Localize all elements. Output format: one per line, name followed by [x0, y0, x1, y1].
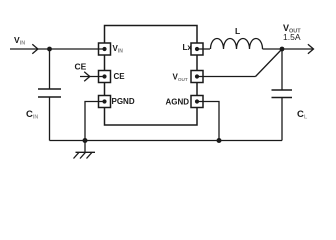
wire CL lower	[281, 98, 283, 141]
capacitor CL	[272, 90, 293, 98]
wire CE input	[80, 76, 105, 78]
node output junction	[280, 47, 285, 52]
pin 1 dot VIN	[102, 47, 106, 51]
svg-text:AGND: AGND	[165, 98, 189, 107]
wire AGND to rail	[197, 102, 219, 141]
wire inductor to output node	[263, 48, 283, 50]
wire Lx to inductor	[197, 48, 210, 50]
wire ground rail	[50, 140, 283, 142]
pin box VIN (pin 1, left row 1)	[99, 43, 111, 55]
wire output node to CL	[281, 49, 283, 90]
wire PGND to rail	[85, 102, 105, 141]
pin dot Lx	[195, 47, 199, 51]
pin box AGND (right row 3)	[191, 96, 203, 108]
arrow on VIN input	[32, 44, 38, 54]
wire CIN lower	[49, 97, 51, 141]
ground symbol	[74, 141, 96, 159]
svg-text:PGND: PGND	[112, 97, 135, 106]
pin box CE (left row 2)	[99, 71, 111, 83]
wire CIN upper	[49, 49, 51, 89]
wire VOUT pin feedback horizontal	[197, 76, 256, 78]
arrow on VOUT output	[308, 44, 314, 54]
svg-text:L: L	[235, 26, 240, 36]
pin dot VOUT	[195, 74, 199, 78]
pin box PGND (left row 3)	[99, 96, 111, 108]
pin box VOUT (right row 2)	[191, 71, 203, 83]
pin dot AGND	[195, 99, 199, 103]
pin box Lx (right row 1)	[191, 43, 203, 55]
svg-text:CE: CE	[114, 72, 126, 81]
capacitor CIN	[38, 89, 61, 97]
wire VOUT diagonal	[256, 49, 283, 77]
pin dot CE	[102, 74, 106, 78]
svg-text:1.5A: 1.5A	[283, 32, 301, 42]
node ground junction	[83, 138, 88, 143]
wire VIN input line	[10, 48, 105, 50]
node AGND rail junction	[217, 138, 222, 143]
svg-text:CE: CE	[75, 62, 87, 72]
wire output arrow line	[282, 48, 313, 50]
arrow on CE input	[84, 72, 90, 82]
inductor L	[211, 39, 263, 49]
op-amp U1 (regulator IC body)	[105, 26, 198, 126]
node VIN junction	[47, 47, 52, 52]
svg-text:Lx: Lx	[183, 43, 193, 52]
pin dot PGND	[102, 99, 106, 103]
